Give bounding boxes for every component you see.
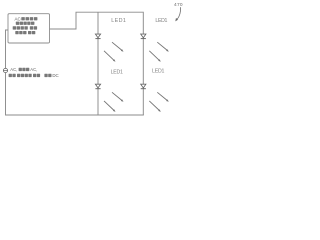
svg-text:LED1: LED1	[111, 18, 126, 24]
svg-text:AC,: AC,	[30, 67, 37, 72]
svg-text:LED1: LED1	[152, 69, 165, 75]
svg-text:LED1: LED1	[155, 18, 167, 24]
svg-text:DC: DC	[52, 73, 58, 78]
svg-text:470: 470	[174, 2, 183, 8]
svg-text:AC: AC	[15, 16, 22, 21]
svg-text:AC,: AC,	[10, 67, 17, 72]
svg-text:LED1: LED1	[111, 69, 123, 75]
